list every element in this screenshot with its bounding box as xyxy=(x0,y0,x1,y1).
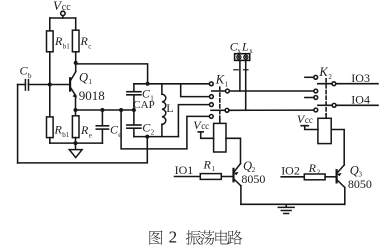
svg-text:IO3: IO3 xyxy=(351,71,370,85)
label Lx xyxy=(241,40,253,56)
tank left rail middle xyxy=(133,95,135,125)
svg-text:IO4: IO4 xyxy=(351,92,370,106)
label 8050 Q3 xyxy=(348,177,372,191)
svg-text:b: b xyxy=(28,72,32,80)
svg-text:8050: 8050 xyxy=(348,177,372,191)
Vcc bar terminal 2 xyxy=(301,125,308,127)
wire base row xyxy=(18,84,70,86)
label IO2 xyxy=(281,164,300,178)
svg-text:IO1: IO1 xyxy=(175,163,194,177)
transistor Q1 9018 xyxy=(70,72,77,98)
label C1 xyxy=(142,87,154,103)
svg-text:1: 1 xyxy=(89,78,93,86)
wire tank top branch to K1 contact 2 xyxy=(181,84,210,97)
svg-text:2: 2 xyxy=(328,73,332,81)
tank left rail upper xyxy=(133,84,135,92)
tank left rail lower xyxy=(133,129,135,137)
svg-text:K: K xyxy=(215,73,225,87)
node collector junction dot xyxy=(74,61,78,65)
label Q1 xyxy=(79,70,93,86)
label Q3 xyxy=(350,163,363,178)
node tank top junction dot xyxy=(146,82,150,86)
capacitor Cb plates xyxy=(25,80,28,91)
label Cb xyxy=(20,64,33,81)
label R2 xyxy=(308,161,321,176)
relay coil K2 xyxy=(318,118,331,143)
relay coil K1 xyxy=(214,123,226,152)
node K1 branch dot xyxy=(119,108,123,112)
capacitor C2 xyxy=(127,125,141,128)
wire bottom bias row xyxy=(50,142,103,144)
svg-text:Q: Q xyxy=(243,159,252,173)
resistor Rb1 xyxy=(47,31,54,52)
svg-text:R: R xyxy=(203,158,212,172)
wire C1C2 tap row y91 to K2 xyxy=(229,90,314,92)
svg-text:Q: Q xyxy=(350,163,359,177)
svg-text:L: L xyxy=(241,40,249,54)
wire feedback bottom xyxy=(18,137,148,163)
switch K2 moving contact 2 / IO4 line xyxy=(318,103,378,107)
wire tank bottom xyxy=(134,136,179,138)
wire IO2 to R2 xyxy=(281,176,304,178)
caption text 图 2 振荡电路 xyxy=(149,227,242,246)
label Re xyxy=(80,123,92,140)
label Ce xyxy=(110,123,121,140)
svg-text:2: 2 xyxy=(169,227,178,246)
switch K1 moving contact 1 xyxy=(212,89,230,93)
power label Vcc (main supply) xyxy=(53,0,71,13)
wire K2 stub 1 xyxy=(305,76,314,78)
svg-text:b1: b1 xyxy=(62,131,70,139)
svg-text:8050: 8050 xyxy=(241,172,265,186)
Vcc terminal circle xyxy=(61,11,65,18)
svg-text:c: c xyxy=(88,43,91,51)
transistor Q2 8050 xyxy=(234,164,241,186)
wire Cx leg xyxy=(239,60,241,91)
switch K2 fixed contacts xyxy=(314,75,318,112)
resistor Rc xyxy=(72,30,79,52)
svg-text:1: 1 xyxy=(212,165,216,173)
transistor Q3 8050 xyxy=(337,165,345,188)
label L xyxy=(166,101,173,115)
wire feedback left vertical xyxy=(17,85,19,163)
wire relay coil 1 to Q2 collector xyxy=(226,138,241,163)
label Q2 xyxy=(243,159,256,174)
label R1 xyxy=(203,158,216,173)
node emitter dot xyxy=(74,108,78,112)
svg-text:R: R xyxy=(308,161,317,175)
label 8050 Q2 xyxy=(241,172,265,186)
svg-text:CAP: CAP xyxy=(133,99,154,111)
svg-text:R: R xyxy=(54,34,63,48)
wire tank bottom to K1 contact 3 xyxy=(178,105,209,137)
wire emitter row xyxy=(76,109,134,111)
label IO1 xyxy=(175,163,194,177)
resistor R1 xyxy=(200,174,221,180)
node tank mid dot xyxy=(132,108,136,112)
svg-text:Q: Q xyxy=(79,70,88,84)
svg-text:cc: cc xyxy=(201,121,209,131)
label Rb1 xyxy=(54,34,70,51)
wire Vcc to relay coil 2 xyxy=(305,126,318,130)
node base junction dot xyxy=(48,83,52,87)
label 9018 xyxy=(79,88,105,103)
wire Vcc top bar xyxy=(50,17,76,19)
ground (earth bars) xyxy=(278,204,294,213)
svg-text:K: K xyxy=(318,65,328,79)
label IO3 xyxy=(351,71,370,85)
wire Rc bottom to collector node xyxy=(75,52,77,72)
svg-text:R: R xyxy=(54,123,63,137)
power label Vcc (relay 2) xyxy=(297,112,313,126)
wire K2 stub 3 xyxy=(305,97,314,99)
wire row y110.3 to K2 xyxy=(229,109,314,111)
switch K2 moving contact 1 / IO3 line xyxy=(318,82,378,86)
wire Q3 emitter to rail xyxy=(344,188,346,205)
crystal socket box Cx Lx xyxy=(235,54,250,61)
svg-text:R: R xyxy=(80,123,89,137)
svg-text:cc: cc xyxy=(305,115,313,125)
svg-text:e: e xyxy=(89,132,92,140)
inductor L xyxy=(162,84,166,137)
wire ground rail xyxy=(241,203,345,205)
node ground dot xyxy=(74,141,78,145)
label K2 xyxy=(318,65,332,81)
power label Vcc (relay 1) xyxy=(193,118,209,132)
switch K1 moving contact 2 xyxy=(211,108,229,112)
wire Vcc to relay coil 1 xyxy=(201,132,214,138)
label K1 xyxy=(215,73,229,89)
K1 linkage dashed xyxy=(219,87,221,123)
svg-text:2: 2 xyxy=(317,168,321,176)
label Cx xyxy=(230,40,242,56)
K2 linkage dashed xyxy=(325,79,327,119)
label C2 xyxy=(142,121,154,137)
wire to Rc xyxy=(75,18,77,30)
node tank bottom junction dot xyxy=(145,135,149,139)
svg-text:IO2: IO2 xyxy=(281,164,300,178)
Vcc bar terminal 1 xyxy=(198,131,203,133)
capacitor C1 xyxy=(127,92,141,95)
wire Lx leg xyxy=(245,60,247,110)
capacitor Ce xyxy=(96,110,108,143)
wire Q2 emitter to rail xyxy=(240,186,242,205)
svg-text:1: 1 xyxy=(225,81,229,89)
wire R2 to Q3 base xyxy=(325,176,336,178)
svg-text:b1: b1 xyxy=(63,43,71,51)
ground (triangle) xyxy=(69,143,82,158)
wire emitter branch to K1 contact 4 xyxy=(121,110,209,149)
label CAP xyxy=(133,99,154,111)
switch K1 fixed contacts xyxy=(209,82,213,118)
label Rc xyxy=(80,34,92,51)
resistor Rb2 xyxy=(47,117,54,143)
wire to Rb1 xyxy=(49,18,51,31)
wire collector to tank top xyxy=(76,64,148,84)
wire Rb1 bottom to base node to Rb2 xyxy=(49,52,51,117)
node Ce top dot xyxy=(100,108,104,112)
socket tick marks xyxy=(234,69,248,71)
svg-text:L: L xyxy=(166,101,173,115)
wire tank top rail xyxy=(134,83,210,85)
wire IO1 to R1 xyxy=(175,176,201,178)
resistor R2 xyxy=(304,174,325,180)
svg-text:9018: 9018 xyxy=(79,88,105,103)
svg-text:2: 2 xyxy=(151,129,155,137)
resistor Re xyxy=(72,110,79,143)
wire Q3 collector to relay coil 2 xyxy=(331,130,344,165)
label IO4 xyxy=(351,92,370,106)
wire Q1 emitter down xyxy=(75,97,77,111)
wire R1 to Q2 base xyxy=(221,176,232,178)
svg-text:R: R xyxy=(80,34,89,48)
label Rb2 xyxy=(54,123,70,140)
